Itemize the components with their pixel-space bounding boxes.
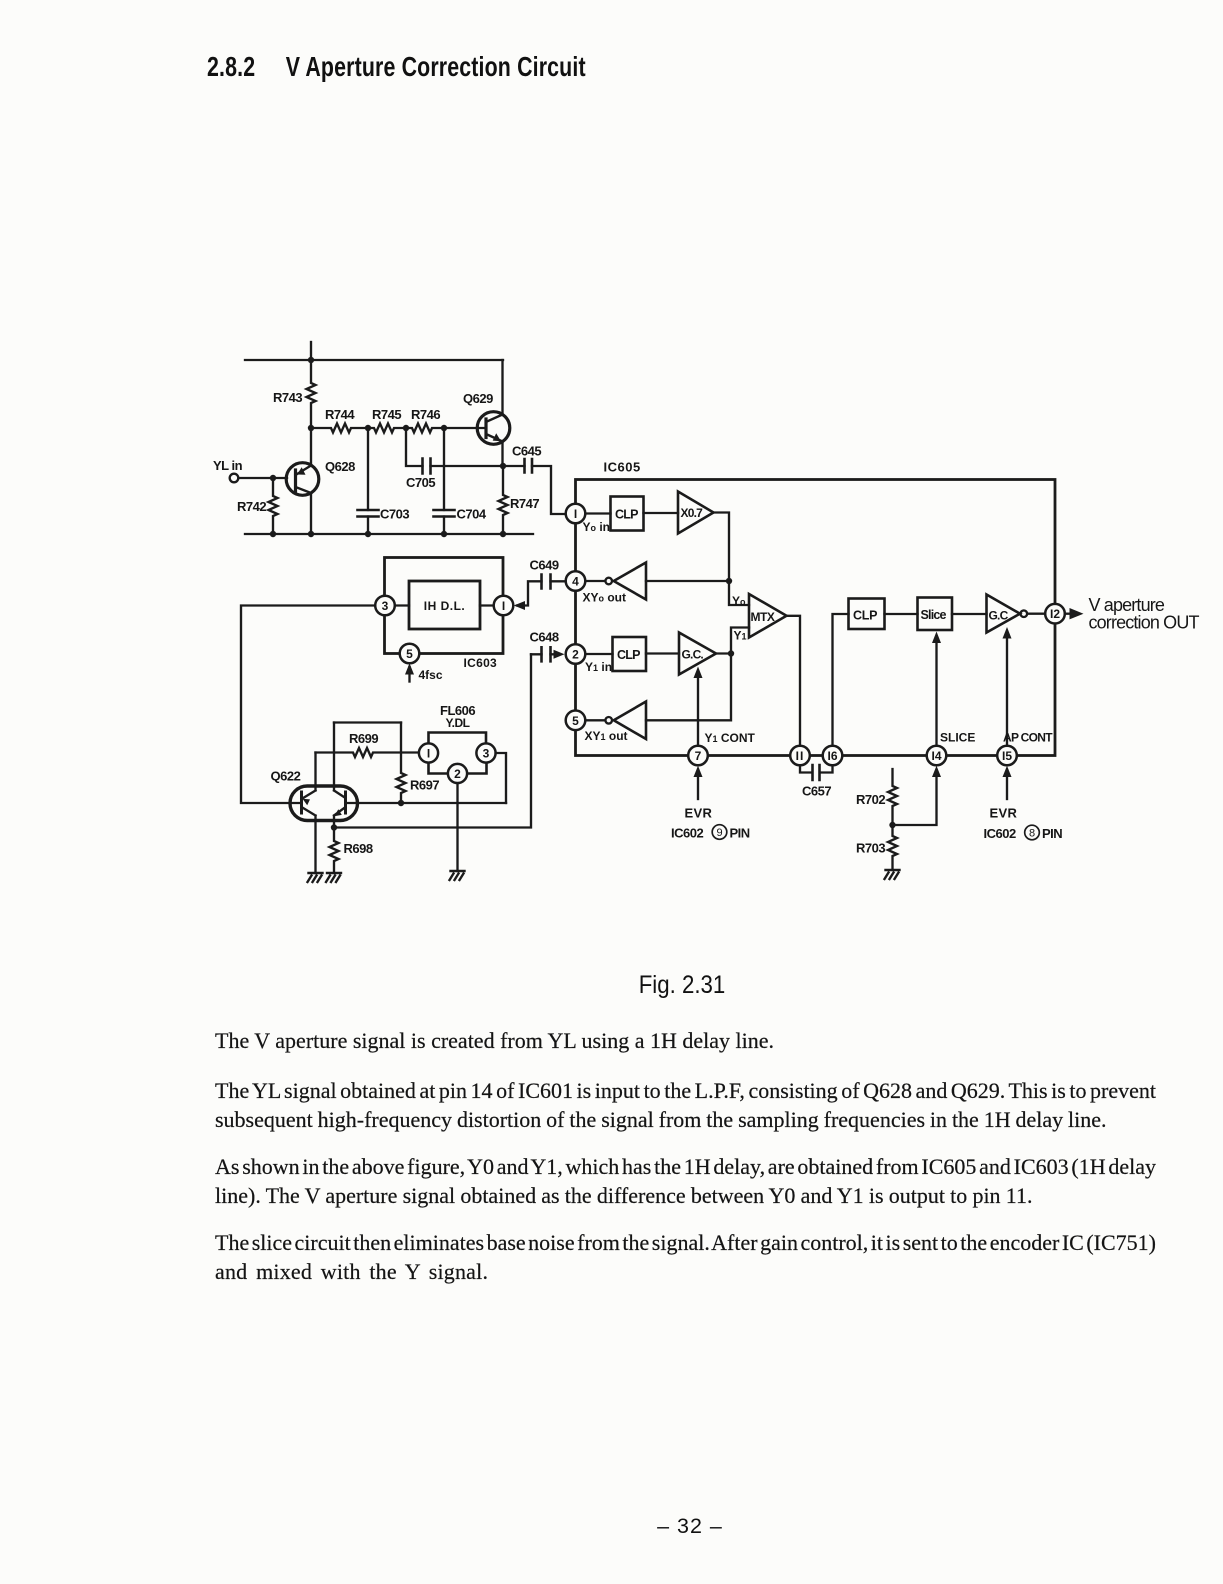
- svg-text:I4: I4: [931, 749, 941, 763]
- svg-text:Y1 in: Y1 in: [585, 660, 612, 674]
- paragraph 2: [215, 1078, 1156, 1136]
- svg-text:C704: C704: [457, 507, 487, 522]
- ground (FL606 pin2): [450, 871, 465, 880]
- svg-text:C649: C649: [530, 558, 559, 573]
- svg-text:IH D.L.: IH D.L.: [424, 599, 466, 613]
- block CLP (Y1): [613, 637, 647, 671]
- capacitor C645: [503, 444, 566, 515]
- wire pin16 to CLP: [833, 614, 849, 746]
- svg-text:C703: C703: [380, 507, 409, 522]
- inverter amp (XY1 out): [614, 702, 646, 740]
- pin 7: [688, 746, 708, 766]
- supply stub: [310, 342, 312, 360]
- transistor pair Q622: [290, 786, 358, 821]
- svg-text:5: 5: [572, 714, 579, 728]
- Q622 left device: [300, 792, 303, 813]
- pin 1: [566, 504, 586, 524]
- node dots on ground rail: [270, 531, 276, 537]
- wire Q622 collector top loop: [334, 721, 401, 723]
- block CLP (Yo): [611, 497, 644, 531]
- control arrow pin14 to Slice: [935, 637, 937, 746]
- pin 3 (IC603): [375, 596, 395, 616]
- wire pin2 to CLP: [585, 653, 613, 655]
- svg-text:R742: R742: [237, 499, 266, 514]
- svg-text:IC603: IC603: [464, 656, 498, 670]
- resistor R743: [307, 360, 316, 428]
- node (base/R742): [270, 475, 276, 481]
- resistor R697: [397, 723, 406, 804]
- svg-text:XY1 out: XY1 out: [585, 729, 628, 743]
- node (R745/R746/C705): [403, 425, 409, 431]
- ground (R703): [885, 870, 900, 879]
- control arrow pin7 to G.C.: [697, 672, 699, 746]
- pin 4: [566, 571, 586, 591]
- svg-text:Yo in: Yo in: [583, 520, 611, 534]
- node A (R743/R744/Q628 collector): [308, 425, 314, 431]
- block CLP (output): [849, 599, 885, 630]
- section header: [207, 51, 586, 83]
- svg-text:9: 9: [716, 827, 722, 839]
- resistor R744: [311, 424, 368, 433]
- resistor R747: [499, 466, 508, 534]
- svg-text:YL in: YL in: [213, 458, 243, 473]
- transistor Q628: [286, 428, 355, 534]
- svg-text:R699: R699: [349, 731, 378, 746]
- amp G.C.: [679, 633, 716, 675]
- wire CLP to X0.7: [644, 512, 679, 514]
- node: rail/R743 junction: [308, 357, 314, 363]
- node (Q622 emitter/R698/C648 line): [331, 824, 337, 830]
- resistor R742: [269, 478, 278, 534]
- svg-text:G.C.: G.C.: [682, 648, 704, 662]
- svg-text:IC602: IC602: [984, 826, 1016, 841]
- terminal YL in: [230, 474, 239, 483]
- amp MTX: [749, 594, 787, 638]
- paragraph 3: [215, 1154, 1156, 1212]
- ground (Q622 left): [308, 873, 323, 882]
- IC U605 outline: [576, 480, 1056, 756]
- resistor R703: [888, 825, 897, 870]
- block 1H D.L.: [409, 581, 480, 629]
- svg-text:R747: R747: [510, 496, 539, 511]
- wire inverter input: [646, 580, 729, 582]
- node (R744/R745/C703): [365, 425, 371, 431]
- wire pin1 to CLP: [585, 512, 611, 514]
- pin 16: [823, 746, 843, 766]
- svg-text:AP CONT: AP CONT: [1003, 731, 1053, 745]
- ground rail (bottom): [245, 533, 533, 535]
- svg-text:C645: C645: [512, 444, 541, 459]
- node (X0.7 out / inverter tap): [726, 578, 732, 584]
- svg-text:PIN: PIN: [1042, 826, 1062, 841]
- node (R702/R703/pin14): [889, 822, 895, 828]
- schematic SVG placeholder: [0, 0, 1223, 920]
- capacitor C657 (pins 11-16): [800, 766, 833, 773]
- resistor R698: [330, 828, 339, 874]
- inverter amp (XYo out): [614, 563, 646, 600]
- svg-text:II: II: [796, 749, 805, 763]
- svg-text:R702: R702: [856, 792, 885, 807]
- ground (R698): [326, 873, 341, 882]
- control arrow pin15 to G.C: [1006, 633, 1008, 746]
- svg-text:Y1 CONT: Y1 CONT: [705, 731, 756, 745]
- paragraph 1: [215, 1028, 1156, 1057]
- EVR arrow into pin 15: [1006, 770, 1008, 799]
- wire inverter output to pin 4: [585, 580, 605, 582]
- pin 2 (FL606): [448, 764, 467, 783]
- svg-text:Q629: Q629: [463, 391, 493, 406]
- svg-text:X0.7: X0.7: [681, 506, 704, 520]
- wire IC603 pin3 to Q622 base (left loop): [241, 606, 375, 804]
- pin 2: [566, 644, 586, 664]
- svg-text:C705: C705: [406, 475, 435, 490]
- svg-text:5: 5: [406, 647, 413, 661]
- pin 12: [1045, 604, 1065, 624]
- capacitor C703: [358, 428, 410, 534]
- wire block to pin1: [480, 604, 494, 606]
- 4fsc arrow into pin 5: [408, 667, 410, 682]
- svg-text:XYo out: XYo out: [583, 591, 627, 605]
- svg-text:R703: R703: [856, 841, 885, 856]
- svg-text:SLICE: SLICE: [940, 731, 975, 745]
- svg-text:3: 3: [483, 747, 490, 761]
- pin 5: [566, 711, 586, 731]
- node (R697/base line): [398, 800, 404, 806]
- svg-text:R745: R745: [372, 407, 401, 422]
- svg-text:I2: I2: [1050, 607, 1060, 621]
- svg-text:I5: I5: [1002, 749, 1012, 763]
- svg-text:R743: R743: [273, 390, 302, 405]
- wire FL606 pin2 to ground: [456, 783, 458, 871]
- svg-text:4fsc: 4fsc: [419, 668, 443, 682]
- svg-text:Yo: Yo: [732, 594, 746, 608]
- IC U603 (1H delay line) outline: [385, 558, 504, 654]
- node (Q629 emitter/R747/C705/C645): [500, 463, 506, 469]
- resistor R746: [406, 424, 444, 433]
- svg-text:R697: R697: [410, 778, 439, 793]
- svg-text:IC602: IC602: [671, 826, 703, 841]
- wire to Q629 base: [444, 427, 486, 429]
- svg-text:CLP: CLP: [615, 508, 638, 522]
- resistor R702: [888, 769, 897, 825]
- svg-text:G.C: G.C: [989, 609, 1009, 623]
- Q622 right device: [344, 792, 347, 813]
- capacitor C649 (pin4 to IC603 pin1): [517, 581, 566, 605]
- svg-text:CLP: CLP: [853, 609, 877, 623]
- resistor R699: [316, 748, 419, 757]
- svg-text:I6: I6: [827, 749, 837, 763]
- svg-text:R698: R698: [344, 841, 373, 856]
- svg-text:2: 2: [572, 648, 579, 662]
- wire G.C. output / Y1 node: [646, 628, 749, 721]
- wire FL606 pin3 down to base line: [496, 753, 506, 803]
- svg-text:EVR: EVR: [990, 806, 1018, 821]
- paragraph 4: [215, 1230, 1156, 1288]
- svg-text:C648: C648: [530, 630, 559, 645]
- node (R746/C704/Q629 base): [441, 425, 447, 431]
- transistor Q629: [463, 360, 510, 466]
- svg-text:R746: R746: [411, 407, 440, 422]
- capacitor C705: [406, 428, 503, 490]
- capacitor C704: [434, 428, 487, 534]
- svg-text:MTX: MTX: [751, 610, 775, 624]
- wire CLP to Slice: [885, 613, 918, 615]
- wire MTX output to pin 11: [787, 616, 801, 746]
- wire pin3 to block: [395, 604, 409, 606]
- wire CLP to G.C.: [646, 652, 679, 654]
- svg-text:correction OUT: correction OUT: [1089, 613, 1200, 633]
- pin 14: [927, 746, 947, 766]
- svg-text:IC605: IC605: [604, 460, 641, 475]
- pin 11: [790, 746, 810, 766]
- wire G.C to pin 12: [1027, 613, 1045, 615]
- block Slice: [918, 598, 953, 631]
- svg-text:R744: R744: [325, 407, 355, 422]
- wire X0.7 output down to Yo node: [714, 513, 750, 606]
- svg-text:Q622: Q622: [271, 769, 301, 784]
- svg-text:I: I: [574, 507, 577, 521]
- pin 1 (IC603): [494, 596, 514, 616]
- wire Q622 emitter node to C648: [334, 654, 531, 827]
- pin 5 (IC603): [400, 644, 420, 664]
- svg-text:Slice: Slice: [921, 608, 947, 622]
- page number: [0, 1514, 1223, 1539]
- node (G.C. out): [728, 650, 734, 656]
- EVR arrow into pin 7: [697, 770, 699, 799]
- svg-text:CLP: CLP: [617, 648, 640, 662]
- svg-text:8: 8: [1029, 828, 1035, 840]
- amp X0.7: [678, 492, 714, 534]
- svg-text:4: 4: [572, 575, 579, 589]
- wire Slice to G.C: [952, 613, 987, 615]
- svg-text:C657: C657: [802, 784, 831, 799]
- wire YL in to Q628 base: [239, 477, 288, 479]
- wire Q622 right base to FL606 pin3 drop: [346, 802, 507, 804]
- svg-text:7: 7: [695, 749, 702, 763]
- svg-text:Y1: Y1: [734, 629, 747, 643]
- svg-text:EVR: EVR: [685, 806, 713, 821]
- output arrow at pin 12: [1065, 613, 1070, 615]
- amp G.C (output): [987, 595, 1021, 633]
- supply rail (top): [245, 359, 503, 361]
- svg-text:Y.DL: Y.DL: [446, 716, 470, 730]
- svg-text:2: 2: [454, 767, 461, 781]
- svg-text:Q628: Q628: [325, 459, 355, 474]
- wire inverter output to pin 5: [585, 719, 605, 721]
- resistor R745: [368, 424, 406, 433]
- figure caption: [75, 971, 1223, 1000]
- pin 15: [997, 746, 1017, 766]
- pin 1 (FL606): [419, 743, 438, 762]
- capacitor C648 (Q622 emitter to pin 2): [531, 653, 557, 655]
- svg-text:I: I: [427, 747, 430, 761]
- wire R702/R703 node to pin 14 arrow: [893, 770, 937, 825]
- svg-text:PIN: PIN: [730, 826, 750, 841]
- svg-text:3: 3: [382, 599, 389, 613]
- pin 3 (FL606): [476, 743, 495, 762]
- svg-text:I: I: [502, 599, 505, 613]
